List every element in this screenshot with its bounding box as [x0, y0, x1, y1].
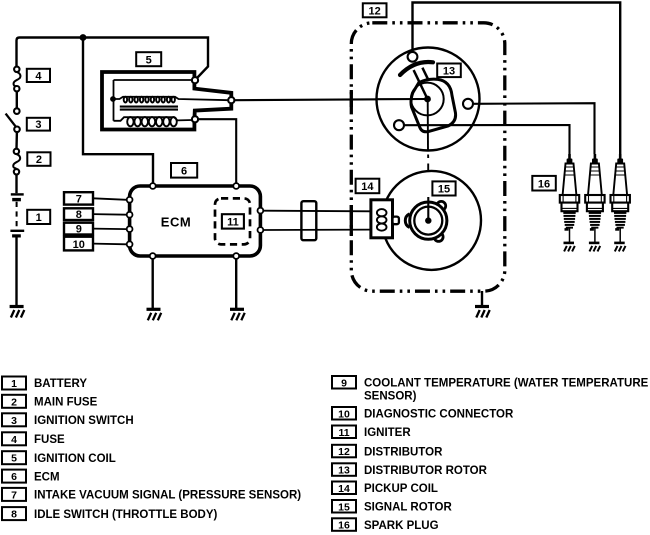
svg-text:7: 7 — [76, 193, 82, 205]
svg-text:DIAGNOSTIC CONNECTOR: DIAGNOSTIC CONNECTOR — [364, 409, 514, 421]
label box 12 (distributor) — [363, 3, 387, 17]
legend box 13 — [332, 463, 356, 476]
wire: fuse F4 to ignition switch — [16, 91, 18, 108]
input box 10 (diagnostic connector) — [64, 237, 93, 251]
svg-text:16: 16 — [538, 178, 550, 190]
svg-text:15: 15 — [338, 501, 350, 513]
svg-text:8: 8 — [76, 209, 82, 221]
label box 5 (ignition coil) — [136, 52, 161, 66]
pin: ECM top-right terminal — [233, 183, 239, 189]
label box 3 (ignition switch) — [27, 118, 50, 131]
svg-text:13: 13 — [443, 66, 455, 78]
wire: second feed rail to distributor cap center electrode — [413, 3, 621, 155]
svg-text:6: 6 — [11, 471, 17, 483]
svg-text:14: 14 — [338, 483, 350, 495]
svg-text:4: 4 — [35, 70, 42, 82]
svg-text:IDLE SWITCH (THROTTLE BODY): IDLE SWITCH (THROTTLE BODY) — [34, 509, 218, 521]
legend box 7 — [2, 488, 26, 502]
legend box 6 — [2, 470, 26, 484]
svg-text:IGNITER: IGNITER — [364, 427, 411, 439]
legend — [2, 376, 649, 532]
pin: ECM bottom-right terminal — [233, 253, 239, 259]
ignition coil T5 outer case — [102, 72, 231, 130]
ignition coil iron core — [120, 107, 178, 110]
ignition coil primary/secondary common lead (left bar) — [113, 80, 115, 121]
svg-text:DISTRIBUTOR ROTOR: DISTRIBUTOR ROTOR — [364, 465, 488, 477]
distributor shaft centerline — [427, 99, 430, 221]
pin: ECM bottom-left terminal — [150, 253, 156, 259]
input box 9 (coolant temperature) — [64, 223, 93, 236]
legend box 16 — [332, 518, 356, 531]
svg-text:PICKUP COIL: PICKUP COIL — [364, 483, 438, 495]
pin: ECM left terminal 2 — [127, 212, 133, 218]
switch S3 (ignition switch) — [6, 108, 20, 132]
pin: ECM right terminal 2 — [258, 227, 264, 233]
input box 7 (intake vacuum signal) — [64, 192, 93, 205]
svg-text:2: 2 — [36, 154, 42, 166]
wire: HT lead inside cap (coil to rotor center) — [377, 98, 427, 100]
label box 16 (spark plug) — [532, 176, 556, 191]
legend box 12 — [332, 445, 356, 458]
svg-text:10: 10 — [338, 408, 350, 420]
node: signal rotor center dot — [425, 217, 431, 223]
svg-text:DISTRIBUTOR: DISTRIBUTOR — [364, 446, 443, 458]
pin: coil + terminal (top right) — [192, 77, 198, 83]
legend box 11 — [332, 426, 356, 439]
ground: ECM ground left — [147, 309, 162, 320]
legend box 4 — [2, 432, 26, 446]
legend box 2 — [2, 395, 26, 409]
ECM box U6 — [130, 186, 261, 256]
ground: battery ground — [10, 307, 25, 318]
ignition coil secondary winding — [114, 117, 193, 126]
legend box 9 — [332, 376, 356, 389]
legend box 8 — [2, 507, 26, 520]
fuse F4 — [14, 67, 21, 92]
wire: shaft line into signal rotor center — [427, 197, 429, 221]
rotor inner circle on cap — [411, 83, 444, 116]
signal rotor circle (lower) — [382, 171, 481, 270]
distributor housing (12) dash-dot outline — [351, 23, 505, 291]
svg-text:3: 3 — [11, 415, 17, 427]
pickup coil pole nub — [393, 217, 399, 225]
label box 14 (pickup coil) — [356, 179, 380, 194]
pin: coil HT tower terminal — [228, 97, 234, 103]
pin: ECM left terminal 1 — [127, 197, 133, 203]
label box 4 (fuse) — [27, 69, 50, 83]
svg-text:SIGNAL ROTOR: SIGNAL ROTOR — [364, 502, 452, 514]
wire: cap lower-left terminal to left spark plug — [404, 125, 570, 154]
svg-text:16: 16 — [338, 520, 350, 532]
svg-text:13: 13 — [338, 465, 350, 477]
wire: battery negative to ground — [15, 238, 17, 307]
wire: ECM right terminal 2 to pickup coil — [263, 229, 371, 231]
distributor rotor (13) contact bar — [400, 62, 433, 75]
pickup coil (14) box — [371, 200, 393, 238]
spark plug 16 (left) — [560, 154, 579, 251]
legend box 5 — [2, 451, 26, 465]
wire: input 9 to ECM — [93, 228, 127, 231]
svg-text:BATTERY: BATTERY — [34, 378, 87, 390]
pin: ECM left terminal 4 — [127, 241, 133, 247]
svg-text:SPARK PLUG: SPARK PLUG — [364, 520, 439, 532]
node: junction of feed rail and ECM supply branch — [80, 34, 87, 41]
wire: main fuse to battery — [15, 175, 17, 194]
wire: input 7 to ECM — [93, 198, 127, 200]
pin: cap terminal to No.2 plug (right) — [463, 99, 473, 109]
ground: distributor ground — [475, 307, 490, 318]
spark plug 16 (middle) — [585, 154, 604, 251]
wire: distributor housing to ground — [481, 291, 483, 306]
label box 2 (main fuse) — [27, 152, 50, 166]
distributor cap circle — [377, 48, 480, 151]
pin: ECM top-left terminal — [150, 183, 156, 189]
svg-text:SENSOR): SENSOR) — [364, 391, 417, 403]
svg-text:5: 5 — [11, 453, 17, 465]
wire: distributor border solid dash at pickup lead crossing — [350, 205, 353, 236]
wire: cap right terminal to middle spark plug — [473, 103, 595, 154]
svg-text:6: 6 — [181, 166, 187, 178]
node: coil common junction — [110, 96, 116, 102]
ground: ECM ground right — [230, 309, 245, 320]
svg-text:12: 12 — [368, 6, 380, 18]
signal rotor left tab — [405, 214, 409, 228]
svg-text:IGNITION COIL: IGNITION COIL — [34, 453, 116, 465]
svg-text:2: 2 — [11, 396, 17, 408]
legend box 14 — [332, 482, 356, 495]
wire: distributor border solid dash at HT lead crossing — [350, 90, 353, 107]
wire: ECM bottom-left terminal to ground — [151, 259, 153, 309]
legend box 1 — [2, 377, 26, 391]
legend box 15 — [332, 500, 356, 513]
svg-text:1: 1 — [11, 378, 17, 390]
svg-text:IGNITION SWITCH: IGNITION SWITCH — [34, 415, 134, 427]
svg-text:11: 11 — [338, 427, 349, 439]
connector: harness connector between ECM and pickup coil — [301, 201, 316, 240]
pin: coil - terminal (bottom right) — [192, 116, 198, 122]
label box 11 (igniter) — [222, 214, 244, 228]
distributor rotor body — [411, 79, 456, 132]
fuse F2 (main fuse) — [13, 149, 20, 175]
svg-text:12: 12 — [338, 446, 350, 458]
svg-text:7: 7 — [11, 489, 17, 501]
wire: coil - terminal to ECM top-right terminal — [198, 119, 236, 182]
pickup coil winding — [377, 209, 387, 231]
wire: ECM right terminal 1 to pickup coil — [263, 210, 371, 213]
pin: ECM left terminal 3 — [127, 226, 133, 232]
wire: input 8 to ECM — [93, 213, 127, 216]
svg-text:MAIN FUSE: MAIN FUSE — [34, 397, 98, 409]
svg-text:INTAKE VACUUM SIGNAL (PRESSURE: INTAKE VACUUM SIGNAL (PRESSURE SENSOR) — [34, 490, 301, 502]
svg-text:8: 8 — [11, 509, 17, 521]
svg-text:9: 9 — [341, 377, 347, 389]
svg-text:15: 15 — [438, 184, 450, 196]
svg-text:4: 4 — [11, 434, 17, 446]
ignition coil top lead to + terminal — [114, 79, 193, 81]
wire: junction to ECM top-left terminal — [83, 38, 153, 183]
pin: cap terminal (center electrode, top) — [408, 52, 418, 62]
wire: HT lead coil tower to distributor rotor center — [234, 99, 427, 100]
spark plug 16 (right) — [611, 154, 630, 251]
distributor rotor arm edges — [414, 68, 429, 99]
ignition coil primary winding — [113, 97, 229, 103]
svg-text:3: 3 — [35, 119, 41, 131]
svg-text:1: 1 — [36, 212, 42, 224]
label box 15 (signal rotor) — [432, 181, 455, 195]
wire: input 10 to ECM — [93, 243, 127, 246]
label box 13 (distributor rotor) — [437, 64, 461, 78]
label box 6 (ECM) — [171, 163, 197, 178]
svg-text:5: 5 — [146, 54, 152, 66]
battery B1 — [10, 194, 24, 237]
svg-text:COOLANT TEMPERATURE (WATER TEM: COOLANT TEMPERATURE (WATER TEMPERATURE — [364, 378, 649, 390]
wire: ignition switch to main fuse — [15, 132, 18, 149]
signal rotor (15) lobed ring — [410, 201, 447, 241]
svg-text:ECM: ECM — [161, 214, 191, 229]
svg-text:10: 10 — [73, 239, 85, 251]
svg-text:9: 9 — [76, 224, 82, 236]
wire: ECM bottom-right terminal to ground — [235, 259, 237, 309]
legend box 3 — [2, 413, 26, 427]
legend box 10 — [332, 407, 356, 420]
svg-text:FUSE: FUSE — [34, 434, 65, 446]
pin: ECM right terminal 1 — [258, 208, 264, 214]
input box 8 (idle switch) — [64, 208, 93, 221]
igniter U11 dashed outline — [215, 198, 250, 244]
svg-text:14: 14 — [361, 181, 374, 193]
label box 1 (battery) — [27, 210, 50, 224]
wire: top feed rail from battery branch to ignition coil top terminal — [17, 38, 209, 79]
node: rotor center dot — [424, 96, 431, 103]
svg-text:ECM: ECM — [34, 471, 60, 483]
svg-text:11: 11 — [227, 217, 239, 229]
pin: cap terminal to No.1 plug (lower left) — [394, 120, 404, 130]
